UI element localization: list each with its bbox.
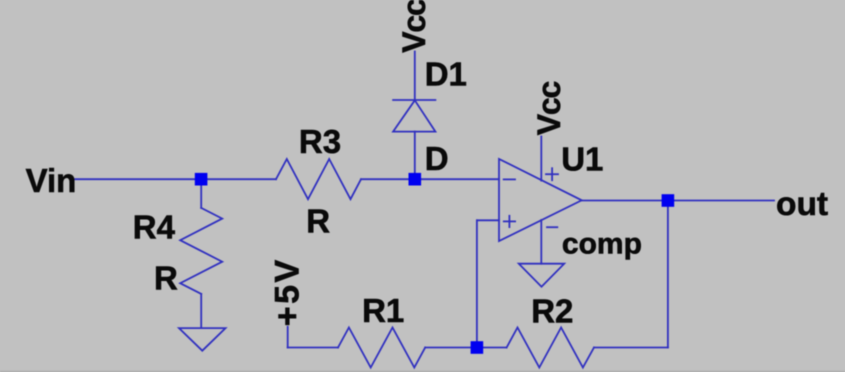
wire Vcc to op-amp top bbox=[540, 137, 542, 181]
wire Vcc to diode bbox=[414, 52, 416, 101]
svg-text:Vin: Vin bbox=[26, 162, 77, 199]
svg-text:out: out bbox=[776, 186, 828, 223]
svg-text:R: R bbox=[306, 202, 330, 239]
wire op-amp bottom to ground bbox=[540, 220, 542, 264]
wire Vin to node A bbox=[75, 178, 276, 180]
svg-text:comp: comp bbox=[562, 228, 642, 261]
ground (op-amp) bbox=[519, 264, 564, 287]
wire op-amp output to out bbox=[582, 200, 774, 202]
bottom window edge bbox=[0, 371, 845, 372]
op-amp minus supply label bbox=[547, 226, 557, 228]
svg-text:Vcc: Vcc bbox=[396, 0, 432, 53]
svg-text:R1: R1 bbox=[362, 292, 404, 329]
node out junction bbox=[662, 194, 675, 207]
resistor R2 bbox=[507, 328, 594, 368]
wire feedback down to node B bbox=[476, 220, 478, 347]
node A junction bbox=[195, 173, 208, 186]
resistor R3 bbox=[276, 159, 361, 199]
svg-text:U1: U1 bbox=[561, 140, 603, 177]
diode D1 bbox=[393, 100, 435, 132]
node D junction bbox=[409, 173, 422, 186]
svg-text:R3: R3 bbox=[299, 123, 341, 160]
resistor R4 bbox=[180, 208, 222, 294]
wire +5V down bbox=[287, 327, 289, 348]
resistor R1 bbox=[338, 328, 425, 368]
op-amp U1 triangle bbox=[499, 159, 582, 241]
wire output node down bbox=[667, 201, 669, 348]
svg-text:R2: R2 bbox=[531, 292, 573, 329]
svg-text:D: D bbox=[425, 140, 449, 177]
wire +5V to R1 bbox=[288, 347, 338, 349]
node B junction bbox=[471, 341, 484, 354]
svg-text:R: R bbox=[154, 259, 178, 296]
wire R4 to ground bbox=[200, 294, 202, 328]
wire node D to op-amp minus input bbox=[361, 178, 499, 180]
svg-text:R4: R4 bbox=[133, 208, 176, 245]
svg-text:D1: D1 bbox=[425, 55, 467, 92]
wire plus input stub bbox=[477, 219, 499, 221]
ground (left) bbox=[179, 328, 226, 351]
wire node A down to R4 bbox=[200, 179, 202, 208]
svg-text:Vcc: Vcc bbox=[531, 82, 567, 136]
svg-text:+5V: +5V bbox=[268, 257, 306, 326]
wire diode to node D bbox=[414, 132, 416, 180]
op-amp plus supply label bbox=[546, 168, 558, 180]
wire R2 to output drop bbox=[594, 347, 668, 349]
wire R1 to node B to R2 bbox=[425, 347, 506, 349]
op-amp plus input label bbox=[504, 216, 515, 227]
op-amp minus input label bbox=[504, 178, 515, 180]
